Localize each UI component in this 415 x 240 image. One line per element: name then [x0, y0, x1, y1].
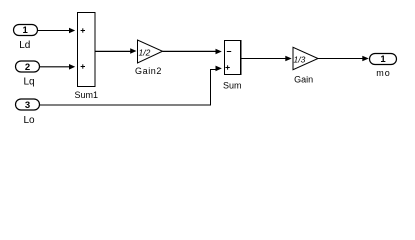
inport 2: [16, 61, 40, 73]
svg-text:Lq: Lq: [23, 77, 34, 88]
svg-text:Lo: Lo: [23, 115, 35, 126]
gain block Gain2: [138, 40, 163, 63]
svg-text:Sum1: Sum1: [75, 90, 99, 100]
wire Sum to Gain: [241, 56, 292, 62]
svg-text:Ld: Ld: [19, 40, 30, 51]
inport 1: [14, 25, 38, 37]
outport 1: [370, 54, 397, 66]
svg-text:1/3: 1/3: [294, 55, 306, 65]
wire inport2 to Sum1: [40, 64, 76, 70]
svg-text:mo: mo: [376, 68, 391, 78]
inport 3: [16, 99, 40, 111]
sum block Sum: [225, 40, 242, 75]
wire Gain to outport: [318, 56, 369, 62]
wire inport1 to Sum1: [37, 28, 75, 34]
wire inport3 to Sum plus input: [40, 66, 222, 105]
svg-text:1/2: 1/2: [139, 48, 151, 58]
wire Gain2 to Sum minus input: [163, 49, 222, 55]
svg-text:2: 2: [25, 62, 30, 73]
sum block Sum1: [78, 13, 96, 87]
svg-text:Sum: Sum: [223, 81, 242, 91]
svg-text:1: 1: [380, 54, 386, 65]
svg-text:3: 3: [25, 100, 30, 111]
svg-text:Gain2: Gain2: [135, 66, 162, 76]
wire Sum1 to Gain2: [95, 48, 137, 54]
svg-text:Gain: Gain: [294, 75, 313, 85]
svg-text:1: 1: [23, 25, 29, 36]
gain block Gain: [293, 47, 318, 70]
